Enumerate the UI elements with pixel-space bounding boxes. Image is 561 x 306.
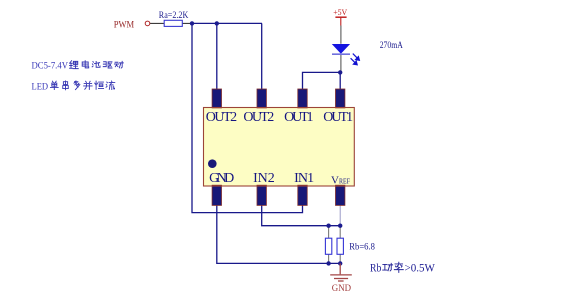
svg-text:LED: LED [32,82,49,92]
svg-text:OUT2: OUT2 [206,110,237,125]
svg-text:GND: GND [332,283,352,293]
svg-text:>0.5W: >0.5W [405,263,436,275]
svg-text:DC5-7.4V: DC5-7.4V [32,61,69,71]
svg-text:OUT2: OUT2 [243,110,274,125]
svg-text:V: V [331,175,339,187]
svg-text:Rb: Rb [370,263,382,275]
svg-text:PWM: PWM [114,20,135,30]
svg-text:IN2: IN2 [253,171,275,186]
svg-text:GND: GND [209,171,234,186]
svg-text:OUT1: OUT1 [284,110,313,125]
svg-text:+5V: +5V [333,7,348,17]
svg-text:OUT1: OUT1 [323,110,353,125]
svg-text:270mA: 270mA [380,40,404,50]
svg-text:IN1: IN1 [294,171,314,186]
svg-text:Ra=2.2K: Ra=2.2K [159,11,189,21]
svg-text:Rb=6.8: Rb=6.8 [349,243,375,253]
svg-text:REF: REF [339,178,350,186]
